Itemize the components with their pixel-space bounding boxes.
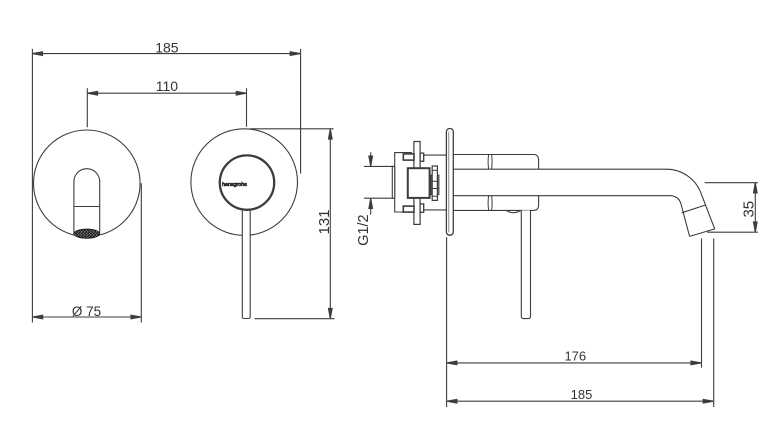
side view: joint lines top band	[488, 155, 492, 211]
side view: spout bottom line with bend	[453, 196, 689, 237]
side view: top-left screw tab	[403, 154, 414, 160]
dimension 185 top: line	[32, 52, 300, 56]
middle view: lever handle	[242, 206, 250, 319]
svg-text:35: 35	[741, 201, 758, 218]
left view: spout ring line	[74, 206, 100, 208]
svg-text:185: 185	[155, 39, 179, 55]
svg-text:hansgrohe: hansgrohe	[222, 182, 247, 188]
extension line right (dia75)	[140, 183, 142, 322]
side view: G1/2 top extension line	[364, 165, 394, 167]
side view: aerator joint line	[682, 205, 705, 213]
left view: spout bottom edge	[74, 234, 100, 236]
side view: bottom-right screw tab	[420, 204, 424, 212]
side view: lever pivot dome	[506, 210, 521, 212]
dimension 185 bottom: line	[447, 399, 714, 403]
dimension 35: bottom extension line	[707, 231, 758, 233]
side view: wall plate inner edge	[448, 132, 450, 233]
side view: top-right screw tab	[420, 153, 424, 161]
dimension 131: line	[328, 129, 332, 319]
side view: link line tab to plate (top)	[424, 154, 447, 156]
svg-text:G1/2: G1/2	[356, 214, 372, 245]
side view: body top band	[453, 155, 538, 170]
svg-text:Ø 75: Ø 75	[72, 304, 101, 319]
dimension 131: bottom extension line	[255, 318, 335, 320]
left view: spout body (front)	[74, 169, 100, 234]
dimension G1/2: arrows	[369, 152, 373, 214]
left view: aerator speckled face	[74, 229, 100, 238]
side view: cartridge box	[408, 168, 430, 198]
side view: mounting bar	[414, 142, 420, 225]
extension line left (110)	[86, 88, 88, 127]
svg-text:131: 131	[316, 209, 333, 234]
dimension 35: line	[753, 183, 757, 233]
middle view: escutcheon circle	[191, 129, 298, 236]
dimension 176: line	[447, 361, 702, 365]
dimension 35: top extension line	[705, 182, 758, 184]
side view: body bottom band	[453, 196, 538, 211]
extension line left (185 top / dia75)	[31, 49, 33, 323]
left view: escutcheon circle	[34, 130, 141, 237]
side view: lever shaft	[521, 210, 530, 318]
extension line right (176)	[701, 239, 703, 368]
dimension dia75: line	[32, 315, 141, 319]
side view: bottom-left screw tab	[403, 206, 414, 212]
side view: connector rib lines	[431, 170, 439, 196]
extension line right (185 bottom)	[713, 239, 715, 408]
side view: aerator tip end	[690, 229, 715, 237]
extension line right (185 top)	[300, 49, 302, 174]
side view: link line tab to plate (bottom)	[424, 209, 447, 211]
side view: ribbed connector spindle	[432, 166, 437, 200]
side view: G1/2 bottom extension line	[364, 197, 394, 199]
side view: spout top line with bend	[453, 169, 715, 229]
extension line left (176/185 bottom)	[446, 237, 448, 407]
dimension 131: top extension line	[250, 128, 334, 130]
side view: rough-in housing	[395, 153, 412, 212]
middle view: handle cap circle	[220, 155, 274, 209]
dimension 110: line	[87, 91, 246, 95]
svg-text:176: 176	[564, 349, 586, 364]
extension line right (110)	[246, 88, 248, 127]
side view: ribbed connector middle flange	[431, 175, 439, 194]
side view: wall plate	[446, 129, 453, 236]
side view: G1/2 inlet stub	[392, 166, 394, 198]
svg-text:110: 110	[156, 78, 179, 94]
svg-text:185: 185	[571, 387, 593, 402]
